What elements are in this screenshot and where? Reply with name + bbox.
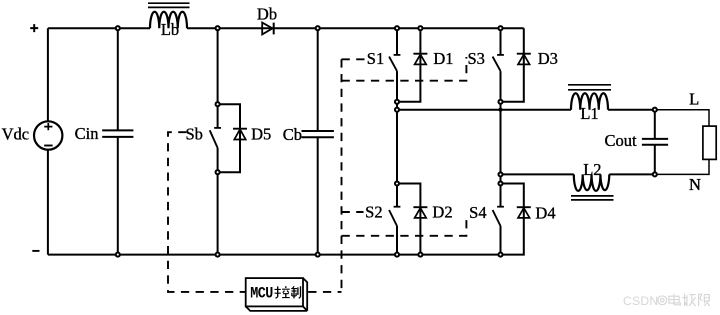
node S2 bottom <box>395 253 399 257</box>
svg-text:Sb: Sb <box>185 124 202 143</box>
dashed gate line S1 <box>342 58 367 60</box>
node Cb top <box>316 26 320 30</box>
diode Db <box>262 23 274 35</box>
switch S1 <box>389 28 400 102</box>
capacitor Cin <box>102 28 133 254</box>
node Sb top <box>216 26 220 30</box>
node Cout top <box>653 108 657 112</box>
svg-text:S3: S3 <box>467 49 484 68</box>
wire node A line <box>397 109 571 111</box>
watermark at-sign <box>658 296 667 305</box>
wire Sb branch lower <box>217 172 219 254</box>
watermark glyph xian <box>699 294 710 306</box>
capacitor Cb <box>302 28 334 254</box>
svg-text:D3: D3 <box>538 49 558 68</box>
node leg2 SD join <box>498 100 502 104</box>
node S4 bottom <box>498 253 502 257</box>
node leg1 SD join <box>395 100 399 104</box>
svg-text:L1: L1 <box>580 104 598 123</box>
watermark glyph ji <box>682 294 695 306</box>
wire bottom rail <box>48 254 501 256</box>
svg-text:D1: D1 <box>433 49 453 68</box>
diode D5 <box>218 104 247 172</box>
watermark glyph dian <box>669 294 681 305</box>
switch Sb <box>210 104 221 172</box>
wire Sb branch upper <box>217 28 219 104</box>
node D1 top <box>418 26 422 30</box>
diode D4 <box>501 184 531 255</box>
diode D3 <box>501 28 531 102</box>
wire node B line <box>501 173 574 175</box>
node Cin top <box>116 26 120 30</box>
wire top rail right <box>187 27 524 29</box>
dashed gate line S2 <box>342 211 364 213</box>
node Sb bottom <box>216 253 220 257</box>
svg-text:S1: S1 <box>367 49 384 68</box>
svg-text:D2: D2 <box>432 203 452 222</box>
dashed gate line S4 <box>342 214 467 236</box>
polarity minus <box>32 250 39 252</box>
svg-text:D5: D5 <box>251 125 271 144</box>
svg-text:L: L <box>689 89 699 108</box>
node Sb lower <box>216 170 220 174</box>
dashed line MCU to right bus <box>308 291 341 293</box>
node Sb upper <box>216 102 220 106</box>
node A <box>395 108 399 112</box>
inductor L1 <box>568 85 611 110</box>
wire to load top <box>655 110 709 126</box>
node crossing legs <box>498 108 502 112</box>
wire left vertical upper <box>47 28 49 121</box>
svg-text:Vdc: Vdc <box>2 124 30 143</box>
node Cb bottom <box>316 253 320 257</box>
inductor Lb <box>148 3 190 28</box>
capacitor Cout <box>642 110 668 175</box>
diode D2 <box>397 184 427 255</box>
wire top rail left <box>48 27 150 29</box>
node Cin bottom <box>116 253 120 257</box>
svg-text:Db: Db <box>257 4 277 23</box>
polarity plus <box>30 24 38 32</box>
dashed control lines <box>168 57 466 292</box>
dashed gate line S3 <box>342 57 467 81</box>
watermark <box>623 294 710 308</box>
switch S3 <box>493 28 504 102</box>
node S1 top <box>395 26 399 30</box>
switch S2 <box>389 184 400 255</box>
svg-text:MCU: MCU <box>250 286 273 303</box>
svg-text:Cin: Cin <box>75 124 99 143</box>
svg-text:S4: S4 <box>469 203 486 222</box>
wire L2 to Cout node <box>609 173 655 175</box>
node D2 branch <box>395 181 399 185</box>
diode D1 <box>397 28 427 102</box>
wire L1 to Cout node <box>608 109 655 111</box>
wire leg2 mid vertical <box>500 102 502 184</box>
wire leg1 mid vertical <box>396 102 398 184</box>
source Vdc <box>34 121 62 149</box>
load resistor <box>703 126 716 159</box>
node D4 branch <box>498 181 502 185</box>
node D2 bottom <box>418 253 422 257</box>
svg-text:Cout: Cout <box>604 131 637 150</box>
svg-text:CSDN: CSDN <box>623 294 658 308</box>
inductor L2 <box>571 174 614 200</box>
dashed right vertical bus <box>341 59 343 292</box>
node S3 top <box>498 26 502 30</box>
svg-text:L2: L2 <box>583 160 601 179</box>
svg-text:N: N <box>689 175 701 194</box>
svg-text:S2: S2 <box>365 203 382 222</box>
glyph zhi <box>291 286 297 298</box>
switch S4 <box>493 184 504 255</box>
MCU control box <box>246 278 308 311</box>
svg-text:Cb: Cb <box>283 125 302 144</box>
wire to load bottom <box>655 159 709 174</box>
node Cout bottom <box>653 172 657 176</box>
svg-text:Lb: Lb <box>161 20 179 39</box>
dashed gate line Sb <box>168 132 246 292</box>
svg-text:D4: D4 <box>535 203 555 222</box>
label MCU control <box>250 286 300 303</box>
wire left vertical lower <box>47 150 49 255</box>
node B <box>498 172 502 176</box>
glyph kong <box>275 286 281 298</box>
